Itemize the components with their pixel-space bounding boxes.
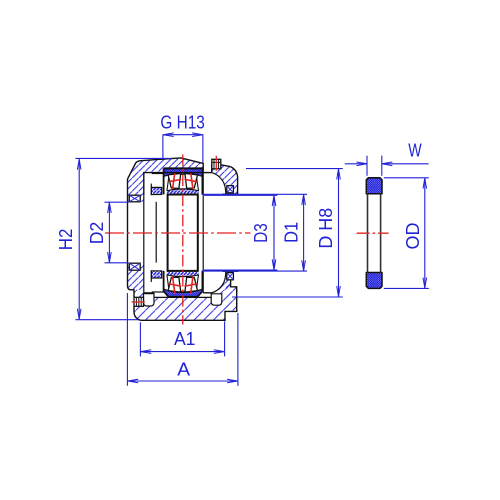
- svg-text:D2: D2: [87, 222, 107, 245]
- svg-text:OD: OD: [403, 222, 423, 249]
- svg-text:G H13: G H13: [160, 112, 204, 132]
- svg-text:H2: H2: [56, 229, 76, 251]
- svg-text:D H8: D H8: [316, 208, 336, 249]
- svg-text:A: A: [177, 359, 190, 379]
- svg-text:W: W: [408, 141, 421, 161]
- svg-text:A1: A1: [174, 329, 196, 349]
- svg-text:D3: D3: [251, 223, 271, 243]
- svg-text:D1: D1: [282, 222, 302, 243]
